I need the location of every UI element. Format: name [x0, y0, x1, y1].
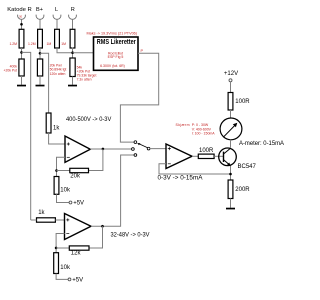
- wire node to RMS box input: [73, 52, 94, 54]
- wire op-amp 3 inverting feedback from emitter: [159, 164, 231, 174]
- wire 100R to meter: [230, 110, 232, 118]
- node L+R sum: [71, 51, 74, 54]
- switch S1 pole: [147, 147, 150, 150]
- resistor 400k +20k Pot (Katode divider lower): [4, 59, 25, 76]
- svg-text:BC547: BC547: [238, 164, 257, 170]
- op-amp U2 (400-500V scaler): [65, 136, 90, 162]
- svg-text:0-3V -> 0-15mA: 0-3V -> 0-15mA: [158, 175, 203, 181]
- svg-text:6.300V (tot. 6R): 6.300V (tot. 6R): [100, 64, 125, 68]
- resistor 1M (R column): [61, 29, 75, 48]
- resistor 10k (op-amp 2 gain set): [54, 253, 71, 274]
- wire B+ divider node: [39, 48, 41, 59]
- svg-text:12k: 12k: [71, 251, 82, 257]
- wire node to 20k: [57, 170, 70, 172]
- resistor 100R (meter series): [228, 93, 250, 111]
- wire L resistor bottom to node: [57, 48, 73, 53]
- wire B+ divider to ground: [39, 76, 41, 85]
- wire 10k to +5V: [57, 194, 70, 202]
- wire meter to collector: [230, 140, 232, 148]
- op-amp U3 (32-48V scaler): [65, 214, 92, 240]
- resistor 54k +20k Pot (L/R divider lower): [70, 58, 97, 82]
- wire Katode tap to op-amp 2 riser: [22, 52, 31, 220]
- ground emitter resistor: [226, 208, 235, 210]
- terminal B+: [36, 7, 44, 19]
- svg-text:ESP Fig 5: ESP Fig 5: [108, 55, 124, 59]
- svg-text:10k: 10k: [60, 265, 71, 271]
- node op-amp 1 output: [102, 148, 105, 151]
- node B+ tap: [39, 52, 42, 55]
- wire Katode divider node: [21, 48, 23, 59]
- svg-text:200R: 200R: [235, 187, 250, 193]
- svg-text:100R: 100R: [199, 148, 214, 154]
- resistor 20k (op-amp 1 feedback): [70, 168, 89, 179]
- switch S1 contact 1: [134, 141, 137, 144]
- ground Katode divider: [17, 85, 26, 87]
- svg-text:L: L: [55, 7, 58, 13]
- wire 1k to op-amp 2 + input: [55, 219, 64, 221]
- wire R terminal to resistor: [72, 20, 74, 30]
- resistor 20k Pot (B+ divider lower): [37, 59, 66, 76]
- wire op-amp 1 feedback branch: [89, 149, 103, 171]
- switch S1 lever: [137, 143, 147, 148]
- svg-text:1.2M: 1.2M: [9, 42, 17, 46]
- RMS rectifier module U1: [94, 37, 139, 70]
- svg-text:20k: 20k: [70, 173, 81, 179]
- resistor 1.2M (Katode R column): [9, 29, 23, 48]
- node op-amp 1 inverting: [55, 169, 58, 172]
- wire L/R divider to ground: [72, 77, 74, 85]
- resistor 200R (emitter): [228, 180, 250, 199]
- resistor 1k (op-amp 1 input): [46, 113, 60, 133]
- terminal L: [53, 7, 61, 19]
- wire 1k to op-amp 1 + input: [49, 133, 65, 144]
- wire op-amp 2 feedback branch: [89, 226, 103, 248]
- wire Katode divider to ground: [21, 76, 23, 85]
- svg-text:Maks -> 19.3Vrms (21 PTV06): Maks -> 19.3Vrms (21 PTV06): [87, 32, 138, 36]
- svg-text:B+: B+: [36, 7, 43, 13]
- svg-text:+20k Pot: +20k Pot: [4, 68, 18, 72]
- svg-text:+5V: +5V: [72, 278, 83, 284]
- node Katode tap: [20, 51, 23, 54]
- terminal Katode R: [7, 7, 32, 19]
- wire 100R to base: [214, 155, 223, 157]
- wire RMS output to switch contact 1: [120, 53, 158, 142]
- op-amp U4 (V to I driver): [166, 144, 192, 169]
- wire op-amp 2 output to switch contact 3: [91, 155, 134, 226]
- node junction below Katode R terminal: [20, 23, 23, 26]
- terminal +12V: [224, 71, 238, 82]
- wire 10k to +5V (op-amp 2): [56, 274, 68, 280]
- svg-text:1k: 1k: [53, 126, 60, 132]
- wire 200R to ground: [230, 199, 232, 208]
- wire emitter down: [230, 166, 232, 180]
- svg-text:20k Pwl: 20k Pwl: [50, 63, 62, 67]
- wire op-amp 1 output to switch contact 2: [90, 148, 131, 150]
- wire Katode R terminal to resistor: [21, 20, 23, 30]
- svg-text:R: R: [71, 7, 75, 13]
- wire L terminal to resistor: [56, 20, 58, 30]
- svg-text:50.894k tgt: 50.894k tgt: [50, 68, 67, 72]
- wire B+ terminal to resistor: [39, 20, 41, 30]
- svg-text:1M: 1M: [46, 42, 51, 46]
- transistor Q1 BC547: [219, 148, 257, 170]
- svg-text:+5V: +5V: [73, 201, 84, 207]
- wire switch pole to op-amp 3: [150, 148, 166, 150]
- wire +12V to 100R: [230, 82, 232, 93]
- node op-amp 2 inverting: [55, 247, 58, 250]
- wire riser to 1k: [31, 219, 37, 221]
- terminal +5V (op-amp 1): [69, 201, 84, 207]
- wire R resistor bottom through node: [72, 48, 74, 59]
- svg-text:Katode R: Katode R: [7, 7, 32, 13]
- svg-text:RMS Likeretter: RMS Likeretter: [97, 39, 136, 46]
- label screen power red: [176, 123, 216, 135]
- svg-text:32-48V -> 0-3V: 32-48V -> 0-3V: [111, 233, 150, 239]
- wire op-amp 2 inverting input: [56, 234, 64, 253]
- svg-text:100R: 100R: [235, 99, 250, 105]
- svg-text:1M: 1M: [61, 42, 66, 46]
- svg-text:+12V: +12V: [224, 71, 238, 77]
- svg-text:Skjærm: Skjærm: [176, 123, 190, 127]
- resistor 12k (op-amp 2 feedback): [69, 246, 89, 257]
- svg-text:A-meter: 0-15mA: A-meter: 0-15mA: [239, 141, 284, 147]
- svg-text:1.2M: 1.2M: [28, 42, 36, 46]
- svg-text:1k: 1k: [38, 210, 45, 216]
- resistor 10k (op-amp 1 gain set): [54, 177, 71, 195]
- resistor 1M (L column): [46, 29, 59, 48]
- resistor 100R (base): [198, 148, 214, 159]
- wire op-amp 3 output to 100R: [192, 155, 198, 157]
- wire op-amp 1 inverting input: [57, 157, 66, 176]
- svg-text:120x atten: 120x atten: [50, 72, 66, 76]
- ground L/R divider: [68, 85, 77, 87]
- wire B+ tap to 1k riser: [40, 53, 49, 113]
- svg-text:7.3x atten: 7.3x atten: [77, 78, 92, 82]
- meter M1 A-meter 0-15mA: [220, 118, 242, 140]
- resistor 1.2M (B+ column): [28, 29, 42, 48]
- resistor 1k (op-amp 2 input): [37, 210, 56, 222]
- terminal +5V (op-amp 2): [68, 278, 83, 284]
- switch S1 contact 3: [134, 154, 137, 157]
- switch S1 contact 2: [132, 148, 135, 151]
- svg-text:10k: 10k: [60, 187, 71, 193]
- svg-text:400-500V -> 0-3V: 400-500V -> 0-3V: [66, 117, 111, 123]
- ground B+ divider: [36, 85, 45, 87]
- terminal R: [69, 7, 77, 19]
- svg-text:I: 100 - 150mA: I: 100 - 150mA: [192, 131, 216, 135]
- node op-amp 2 output: [101, 225, 104, 228]
- wire node to 12k: [56, 247, 69, 249]
- node emitter junction: [229, 173, 232, 176]
